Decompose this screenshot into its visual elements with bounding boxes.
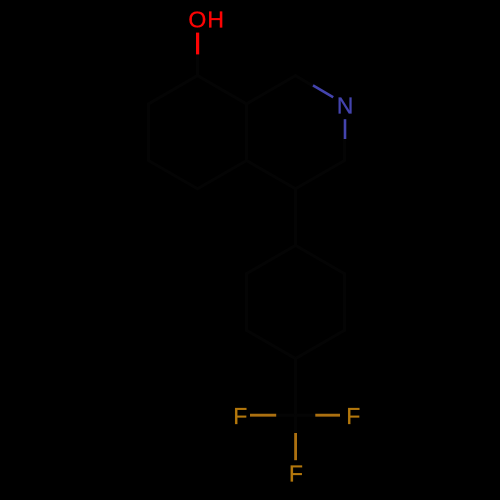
svg-text:F: F bbox=[346, 403, 360, 429]
svg-text:O: O bbox=[188, 7, 206, 33]
svg-text:H: H bbox=[207, 7, 224, 33]
svg-text:N: N bbox=[337, 93, 354, 119]
svg-text:F: F bbox=[233, 403, 247, 429]
svg-text:F: F bbox=[289, 461, 303, 487]
